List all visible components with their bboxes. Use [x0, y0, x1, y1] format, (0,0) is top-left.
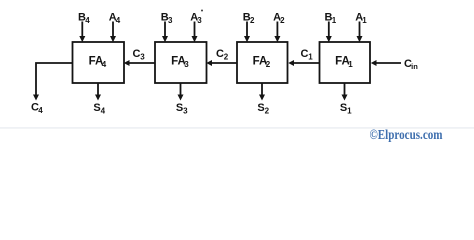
svg-text:4: 4 [102, 60, 107, 69]
wire B1 input [326, 22, 332, 43]
label B2 [243, 12, 255, 26]
svg-text:S: S [340, 102, 347, 114]
svg-text:3: 3 [183, 107, 188, 116]
svg-text:2: 2 [265, 107, 270, 116]
svg-text:2: 2 [280, 16, 285, 25]
label S2 [257, 102, 269, 116]
svg-text:4: 4 [101, 107, 106, 116]
svg-text:2: 2 [266, 60, 271, 69]
wire carry C1 [288, 60, 319, 66]
full adder FA1 [320, 42, 371, 83]
svg-text:©Elprocus.com: ©Elprocus.com [370, 127, 444, 142]
speck mark near A3 [201, 10, 203, 12]
label S4 [93, 102, 105, 116]
svg-text:in: in [411, 62, 418, 71]
wire A4 input [110, 22, 116, 43]
svg-text:3: 3 [168, 16, 173, 25]
label B3 [161, 12, 173, 26]
wire S3 output [178, 83, 184, 101]
svg-text:S: S [93, 102, 100, 114]
scan artifact line [0, 127, 474, 128]
full adder FA4 [73, 42, 125, 83]
wire carry C3 [124, 60, 155, 66]
label C1 [301, 48, 314, 62]
wire A3 input [192, 22, 198, 43]
label A1 [355, 12, 367, 26]
wire B4 input [79, 22, 85, 43]
svg-text:S: S [257, 102, 264, 114]
label Cin [404, 58, 418, 71]
svg-text:4: 4 [85, 16, 90, 25]
wire A2 input [274, 22, 280, 43]
wire carry out C4 [33, 63, 73, 101]
svg-text:1: 1 [362, 16, 367, 25]
wire S1 output [342, 83, 348, 101]
label A4 [109, 12, 121, 26]
label A3 [190, 12, 202, 26]
svg-text:3: 3 [184, 60, 189, 69]
wire B2 input [244, 22, 250, 43]
wire B3 input [162, 22, 168, 43]
svg-text:4: 4 [116, 16, 121, 25]
label C4 [31, 102, 43, 116]
full adder FA2 [237, 42, 288, 83]
label S3 [176, 102, 188, 116]
wire A1 input [357, 22, 363, 43]
label C3 [133, 48, 146, 62]
label A2 [273, 12, 285, 26]
label S1 [340, 102, 352, 116]
watermark Elprocus [370, 127, 444, 142]
svg-text:2: 2 [250, 16, 255, 25]
wire carry C2 [206, 60, 237, 66]
svg-text:4: 4 [38, 106, 43, 115]
svg-text:1: 1 [332, 16, 337, 25]
svg-text:1: 1 [347, 107, 352, 116]
full adder FA3 [155, 42, 207, 83]
wire S4 output [95, 83, 101, 101]
wire S2 output [259, 83, 265, 101]
svg-text:3: 3 [197, 16, 202, 25]
label B4 [78, 12, 90, 26]
svg-text:S: S [176, 102, 183, 114]
svg-text:1: 1 [308, 53, 313, 62]
wire Cin input [371, 60, 401, 66]
svg-text:2: 2 [224, 53, 229, 62]
label B1 [325, 12, 337, 26]
svg-text:1: 1 [348, 60, 353, 69]
svg-text:3: 3 [140, 53, 145, 62]
label C2 [216, 48, 229, 62]
